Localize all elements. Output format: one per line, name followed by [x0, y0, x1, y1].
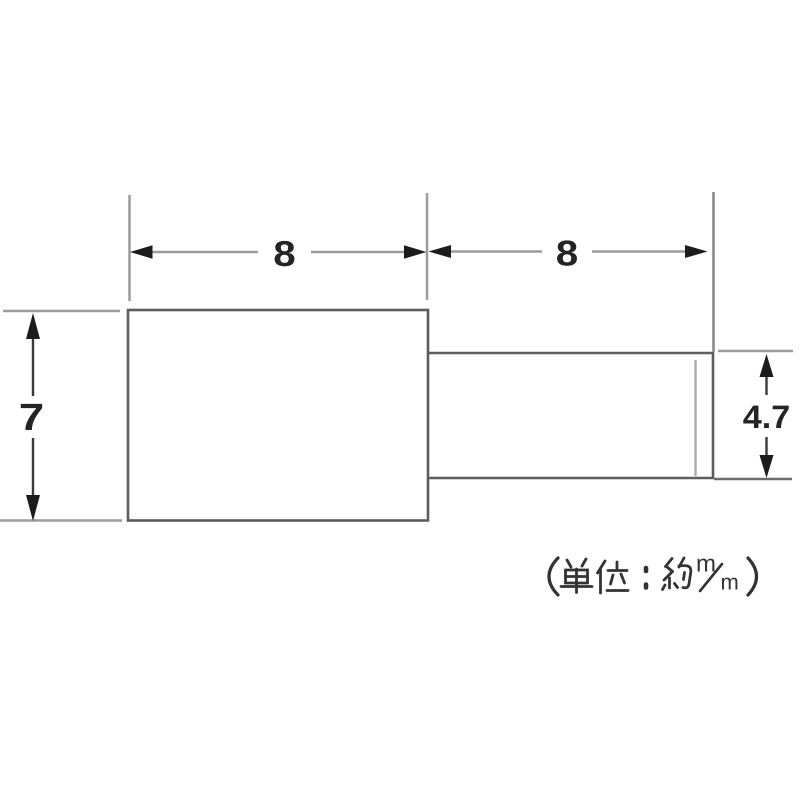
kanji 単 — [561, 559, 592, 593]
extension line for 7 top — [3, 310, 120, 313]
close paren — [748, 558, 757, 595]
subscript m — [722, 578, 737, 590]
extension line right (x=713.5) — [712, 192, 715, 352]
extension line left (x=129.5) — [128, 195, 131, 301]
superscript m — [698, 559, 715, 572]
extension line for 4.7 bottom — [714, 478, 792, 481]
extension line middle (x=427) — [426, 193, 429, 300]
label 8 (right) — [557, 240, 577, 265]
shaft rectangle (small step) — [429, 353, 713, 478]
slash of m/m — [700, 564, 722, 591]
kanji 位 — [598, 561, 629, 593]
label 4.7 — [743, 406, 788, 428]
label 8 (left) — [275, 241, 295, 266]
extension line for 7 bottom — [0, 519, 122, 522]
kanji 約 — [663, 558, 691, 590]
dimension line 7 (vertical, left) — [26, 313, 40, 521]
fullwidth colon — [644, 568, 649, 588]
open paren — [549, 558, 558, 595]
extension line for 4.7 top — [718, 350, 793, 353]
dimension line 8 (left span) — [130, 245, 427, 258]
unit note: (単位：約m/m) — [549, 558, 757, 595]
main body rectangle (large step) — [128, 310, 428, 521]
dimension line 4.7 (vertical, right) — [760, 354, 774, 478]
chamfer line near shaft end — [694, 360, 696, 476]
label 7 — [21, 404, 42, 430]
dimension line 8 (right span) — [429, 245, 708, 258]
